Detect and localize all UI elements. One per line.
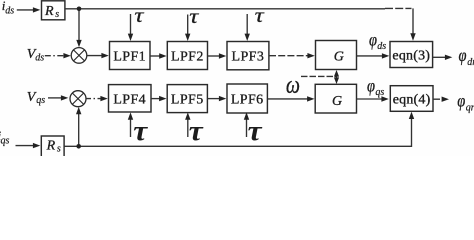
svg-text:V: V xyxy=(27,90,37,105)
svg-text:qs: qs xyxy=(375,87,384,98)
svg-text:qs: qs xyxy=(36,95,45,106)
svg-text:τ: τ xyxy=(189,114,205,147)
svg-text:qr: qr xyxy=(466,102,474,113)
svg-text:eqn(3): eqn(3) xyxy=(392,48,430,63)
svg-text:φ: φ xyxy=(369,29,377,50)
svg-text:s: s xyxy=(57,144,61,155)
svg-text:τ: τ xyxy=(189,5,199,29)
svg-text:eqn(4): eqn(4) xyxy=(393,92,431,107)
svg-text:τ: τ xyxy=(255,4,265,28)
svg-text:G: G xyxy=(332,94,342,109)
svg-text:s: s xyxy=(55,9,59,20)
svg-text:LPF6: LPF6 xyxy=(231,93,264,108)
svg-text:ds: ds xyxy=(35,52,44,63)
svg-text:τ: τ xyxy=(134,4,144,28)
svg-text:LPF1: LPF1 xyxy=(113,50,146,65)
svg-text:φ: φ xyxy=(367,75,375,96)
svg-text:τ: τ xyxy=(133,114,149,147)
svg-text:LPF2: LPF2 xyxy=(171,50,204,65)
svg-text:τ: τ xyxy=(248,114,264,147)
svg-text:φ: φ xyxy=(457,90,465,111)
svg-text:ω: ω xyxy=(286,71,300,99)
svg-text:G: G xyxy=(334,50,344,65)
svg-text:LPF3: LPF3 xyxy=(232,50,265,65)
svg-text:R: R xyxy=(46,139,56,154)
svg-text:qs: qs xyxy=(1,135,10,146)
svg-text:ds: ds xyxy=(377,41,386,52)
svg-text:dr: dr xyxy=(467,57,474,68)
svg-text:R: R xyxy=(44,4,54,19)
svg-text:φ: φ xyxy=(459,44,467,65)
svg-text:LPF4: LPF4 xyxy=(113,93,146,108)
svg-text:ds: ds xyxy=(5,5,14,16)
svg-text:LPF5: LPF5 xyxy=(171,93,204,108)
